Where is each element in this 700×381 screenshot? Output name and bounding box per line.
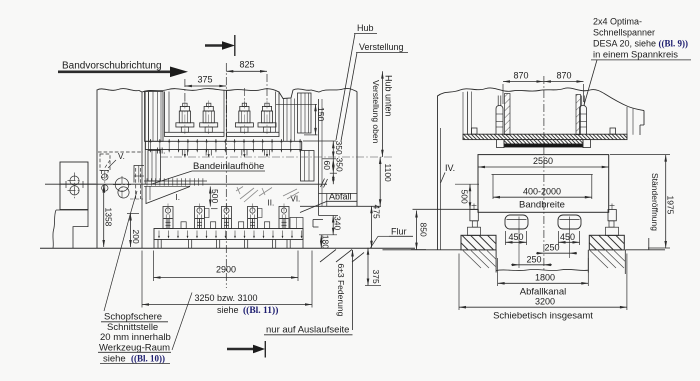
label 2x4 Optima block [591, 17, 691, 60]
svg-text:60: 60 [322, 161, 332, 171]
dimension 400-2000 Bandbreite [492, 175, 593, 211]
svg-text:250: 250 [544, 243, 559, 253]
dimension 250 lower [511, 255, 552, 267]
section arrow bottom [227, 341, 265, 358]
bolster plate hatched [463, 134, 627, 139]
svg-text:DESA 20, siehe: DESA 20, siehe [593, 39, 656, 49]
label Schiebetisch insgesamt [493, 311, 593, 322]
svg-text:350: 350 [334, 158, 344, 172]
label Flur with leader [371, 227, 414, 248]
svg-text:450: 450 [560, 232, 575, 242]
dimension 200 [127, 214, 141, 248]
dimension 1800 [498, 258, 589, 286]
label IV. with leader [441, 163, 456, 183]
table post right [606, 204, 619, 236]
dimension 1975 Staenderoeffnung [610, 155, 676, 248]
lower die units (5) [163, 204, 289, 229]
svg-text:870: 870 [556, 71, 571, 81]
bolster plate clamp pins [158, 231, 302, 239]
svg-text:Bandvorschubrichtung: Bandvorschubrichtung [62, 61, 162, 72]
schopfschere leader lines [104, 191, 192, 350]
dimension 340 [319, 216, 343, 235]
chute step detail [313, 220, 323, 228]
dimension 870 right [503, 71, 584, 105]
dimension chain 350-60-350 [303, 141, 344, 185]
dimension 825 [226, 60, 267, 107]
pit walls and bottom [496, 238, 649, 274]
slide edge verticals [165, 91, 280, 133]
foundation block left [461, 235, 496, 250]
svg-text:Hub: Hub [357, 23, 374, 33]
svg-text:350: 350 [334, 141, 344, 155]
svg-text:825: 825 [239, 60, 254, 70]
svg-text:Schopfschere: Schopfschere [104, 312, 162, 323]
svg-text:6±3 Federung: 6±3 Federung [336, 264, 346, 317]
die rail hatched [504, 140, 583, 144]
dimension Hub unten Verstellung oben [371, 71, 394, 157]
svg-text:in einem Spannkreis: in einem Spannkreis [593, 49, 678, 60]
svg-text:340: 340 [333, 216, 343, 230]
svg-text:siehe: siehe [103, 354, 126, 365]
right slide gib upper block [284, 93, 312, 141]
svg-text:375: 375 [371, 270, 381, 284]
die clamp black bar [504, 144, 583, 147]
dimension 1358 [102, 186, 113, 248]
svg-text:450: 450 [508, 232, 523, 242]
svg-text:Abfall: Abfall [329, 192, 352, 202]
right view inner columns [463, 92, 472, 135]
svg-text:150: 150 [316, 107, 326, 121]
svg-text:500: 500 [460, 190, 470, 204]
svg-text:III.: III. [157, 146, 166, 155]
dimension 500 left view [209, 187, 220, 209]
svg-text:Schiebetisch insgesamt: Schiebetisch insgesamt [493, 311, 593, 322]
svg-text:3200: 3200 [535, 297, 555, 307]
dimension 2560 [478, 156, 609, 168]
window wall hatched right [576, 95, 581, 135]
svg-text:I.: I. [176, 193, 180, 202]
right view crown right edge [627, 107, 644, 135]
dimension 3200 [459, 254, 627, 311]
label Bandvorschubrichtung with feed arrow [58, 61, 188, 78]
dimension 475 [370, 205, 381, 248]
right column foot edge [318, 206, 320, 215]
left column inner edges [142, 92, 148, 248]
left column outer edge [96, 90, 98, 249]
svg-text:IV.: IV. [445, 163, 455, 173]
label V. with leader [108, 152, 125, 168]
svg-text:Hub unten: Hub unten [384, 75, 394, 117]
dimension 180 [319, 235, 337, 249]
svg-text:1358: 1358 [104, 208, 114, 227]
svg-text:850: 850 [419, 223, 429, 237]
label III. [157, 146, 166, 155]
upper bolster plate with clamp pins [145, 139, 301, 152]
dimension 3250 bzw 3100 [142, 251, 312, 317]
svg-text:Flur: Flur [391, 227, 407, 237]
gusset bracket [146, 186, 190, 203]
punch sub-plates [165, 132, 280, 136]
dimension 150 [276, 104, 326, 135]
cushion bar left [505, 215, 528, 229]
label Abfall with leader [300, 192, 357, 213]
upper punches (4 tool sets) [176, 101, 276, 135]
svg-text:3250 bzw. 3100: 3250 bzw. 3100 [194, 293, 257, 303]
dimension 450 left [506, 231, 527, 245]
dimension 850 [411, 211, 429, 250]
label Abfallkanal [520, 287, 566, 298]
svg-text:1800: 1800 [535, 273, 555, 283]
spacer blocks on bolster [181, 218, 303, 229]
floor line [40, 247, 415, 249]
svg-text:((Bl. 10)): ((Bl. 10)) [131, 354, 165, 364]
svg-text:250: 250 [526, 255, 541, 265]
floor line right view [383, 249, 666, 251]
cushion centerlines [519, 217, 570, 269]
svg-text:1975: 1975 [666, 196, 676, 215]
right column inner edge [319, 99, 323, 206]
strip feed line [45, 183, 327, 185]
svg-text:500: 500 [210, 189, 220, 203]
label nur auf Auslaufseite [264, 325, 353, 336]
dimension 375 below floor [365, 248, 381, 286]
svg-text:Bandbreite: Bandbreite [519, 200, 565, 211]
svg-text:2900: 2900 [216, 265, 236, 275]
ground hatch below left block [463, 251, 496, 269]
right gib lower block [301, 151, 315, 182]
optima clamp right [580, 96, 587, 135]
svg-text:V.: V. [118, 152, 125, 161]
right view vertical centerline [543, 76, 545, 272]
svg-text:180: 180 [320, 235, 330, 249]
svg-text:2560: 2560 [533, 156, 553, 166]
svg-text:Verstellung oben: Verstellung oben [371, 80, 381, 144]
rail end step left [497, 140, 504, 148]
right column outer edge [356, 92, 358, 207]
ground hatch below right block [590, 251, 625, 269]
svg-text:Schnellspanner: Schnellspanner [593, 28, 655, 38]
svg-text:200: 200 [131, 230, 141, 244]
left slide gib upper block [145, 92, 164, 142]
foundation block right [589, 235, 624, 250]
right view left outer edge [438, 96, 441, 250]
bolster plate and base ribs [154, 229, 303, 249]
faint sketch marks [236, 187, 299, 203]
rail end step right [583, 140, 590, 148]
dimension 1100 [379, 157, 393, 206]
press crown broken top edge [97, 88, 357, 98]
punch stems below plate [182, 150, 269, 158]
label Bandeinlaufhoehe with leader [152, 161, 265, 184]
straightener bracket [134, 166, 144, 183]
svg-text:Ständeröffnung: Ständeröffnung [650, 173, 660, 231]
svg-text:400-2000: 400-2000 [523, 187, 561, 197]
dimension 6+-3 Federung [336, 250, 354, 331]
feed stand box [60, 162, 88, 210]
press vertical centerline [225, 63, 227, 288]
table top line [413, 208, 479, 210]
section arrow top [205, 35, 235, 56]
dimension 450 right [559, 231, 580, 245]
svg-text:II.: II. [268, 199, 275, 208]
window wall hatched left [505, 94, 511, 135]
right column bottom edge [300, 205, 381, 207]
strip line break symbol [321, 179, 328, 188]
waste chute top edge [319, 194, 358, 207]
left gib lower block [148, 151, 161, 182]
svg-text:1100: 1100 [383, 164, 393, 183]
svg-text:((Bl. 9)): ((Bl. 9)) [659, 39, 689, 49]
svg-text:siehe: siehe [217, 305, 239, 315]
feed stand rolls [68, 173, 82, 199]
cushion bar right [558, 215, 581, 229]
pinch rolls at strip line [60, 171, 131, 200]
dimension 375 [185, 75, 226, 103]
press horizontal centerline [160, 156, 392, 158]
label Hub with leader [336, 23, 377, 140]
svg-text:20 mm innerhalb: 20 mm innerhalb [100, 332, 171, 343]
dimension 500 right view [455, 184, 479, 209]
feed stand pedestal [53, 210, 88, 248]
svg-text:nur auf Auslaufseite: nur auf Auslaufseite [266, 325, 349, 336]
optima clamp left [496, 96, 503, 135]
svg-text:870: 870 [513, 71, 528, 81]
svg-text:Werkzeug-Raum: Werkzeug-Raum [99, 343, 170, 354]
label Schopfschere block [98, 312, 171, 365]
svg-text:375: 375 [197, 75, 212, 85]
table post left [468, 204, 481, 236]
dimension 870 left [503, 71, 544, 83]
label II. [268, 199, 275, 208]
svg-text:Verstellung: Verstellung [359, 42, 404, 52]
svg-text:((Bl. 11)): ((Bl. 11)) [243, 305, 278, 316]
dimension 250 upper [536, 243, 577, 255]
right view crown broken top edge [438, 88, 645, 111]
pit edge marks below floor right [320, 250, 364, 263]
svg-text:2x4 Optima-: 2x4 Optima- [593, 17, 642, 27]
label VI. [291, 195, 301, 204]
dimension 2900 [154, 251, 299, 282]
label Verstellung with leader [341, 42, 408, 141]
plate end blocks [472, 128, 616, 134]
svg-text:Bandeinlaufhöhe: Bandeinlaufhöhe [193, 161, 264, 172]
svg-text:475: 475 [372, 205, 382, 219]
optima leader line [584, 60, 597, 105]
strip guide rail with teeth [144, 178, 207, 186]
label I. [176, 193, 180, 202]
straightener dashed parts [98, 152, 143, 199]
window rectangle [478, 155, 609, 213]
